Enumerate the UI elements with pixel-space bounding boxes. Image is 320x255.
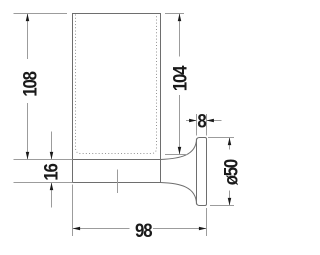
svg-text:104: 104 bbox=[170, 66, 191, 92]
svg-text:108: 108 bbox=[19, 71, 40, 97]
svg-text:16: 16 bbox=[40, 163, 61, 180]
svg-text:98: 98 bbox=[135, 220, 152, 241]
svg-text:8: 8 bbox=[197, 110, 206, 131]
svg-text:ø50: ø50 bbox=[221, 159, 242, 186]
